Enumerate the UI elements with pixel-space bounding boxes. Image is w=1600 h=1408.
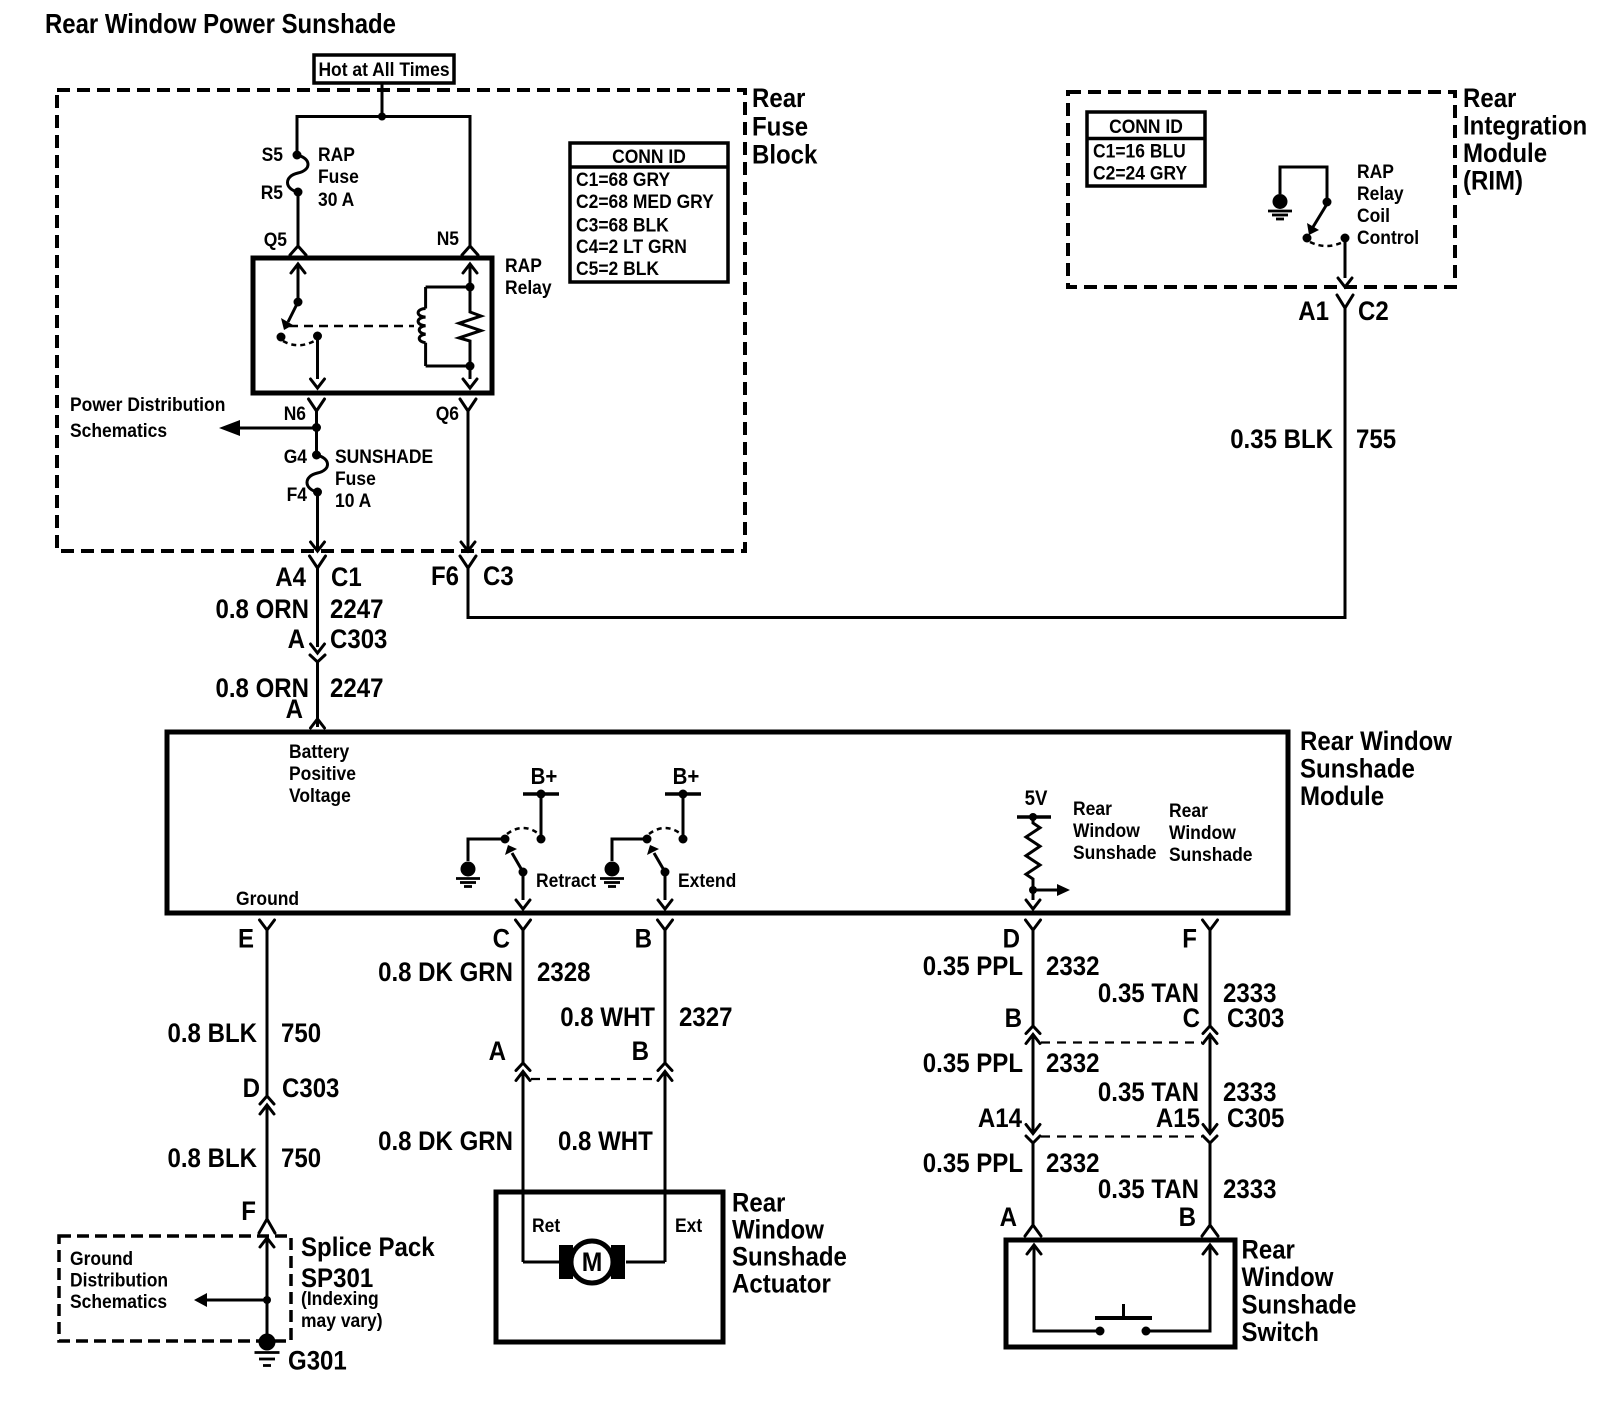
relay node coil bottom: [466, 362, 475, 371]
terminal G4: [312, 451, 321, 460]
svg-text:G4: G4: [284, 447, 308, 468]
switch pin A arrow: [1027, 1245, 1041, 1254]
connector C303 pin C fork and arrow: [1203, 1026, 1217, 1034]
relay switch pivot: [294, 298, 303, 307]
svg-text:Fuse: Fuse: [335, 469, 376, 490]
connector N5 female fork: [462, 246, 478, 255]
svg-text:Q5: Q5: [264, 230, 288, 251]
wire Q6 down to F6: [467, 411, 470, 549]
splice node SP301: [263, 1296, 271, 1304]
switch pin B arrow: [1203, 1245, 1217, 1254]
svg-text:Ground: Ground: [70, 1249, 133, 1270]
svg-text:Voltage: Voltage: [289, 786, 351, 807]
actuator motor wires: [523, 1261, 562, 1264]
svg-text:Module: Module: [1463, 138, 1547, 168]
svg-text:D: D: [243, 1073, 260, 1103]
svg-text:R5: R5: [261, 183, 284, 204]
RIM wire to A1: [1344, 238, 1347, 278]
connector C303 pin A arrow and fork: [311, 644, 325, 653]
connector C305 pin A15 arrow and fork: [1203, 1125, 1217, 1134]
svg-text:5V: 5V: [1025, 787, 1048, 810]
svg-text:C3: C3: [483, 561, 514, 591]
sense node: [1029, 886, 1037, 894]
RIM switch arm: [1313, 204, 1327, 227]
svg-text:Rear Window Power Sunshade: Rear Window Power Sunshade: [45, 8, 396, 39]
svg-text:Hot at All Times: Hot at All Times: [318, 60, 449, 81]
Rear Window Sunshade Module box: [167, 732, 1288, 913]
svg-text:Ret: Ret: [532, 1216, 561, 1237]
RIM pin A1 arrow: [1338, 278, 1352, 287]
extend output wire: [664, 874, 667, 900]
module pin D fork: [1026, 920, 1041, 930]
svg-text:F4: F4: [287, 485, 308, 506]
svg-text:2327: 2327: [679, 1002, 733, 1032]
wire from Hot at All Times to junction: [381, 83, 384, 117]
relay wire to N6: [316, 336, 319, 379]
svg-text:A4: A4: [275, 562, 306, 592]
connector Q5 female fork: [290, 246, 306, 255]
sense arrow right: [1033, 889, 1058, 892]
extend wire to ground: [612, 839, 647, 861]
svg-text:Rear: Rear: [752, 83, 806, 113]
svg-text:Rear: Rear: [1463, 83, 1517, 113]
svg-text:M: M: [582, 1247, 603, 1277]
wire F4 to A4: [316, 492, 319, 549]
svg-text:2247: 2247: [330, 673, 384, 703]
connector N6 female fork: [309, 399, 325, 411]
svg-text:0.8 DK GRN: 0.8 DK GRN: [378, 1126, 513, 1156]
junction node: [378, 113, 386, 121]
connector C305 pin A14 arrow and fork: [1026, 1125, 1040, 1134]
svg-text:2247: 2247: [330, 594, 384, 624]
svg-text:Relay: Relay: [505, 278, 552, 299]
svg-text:Schematics: Schematics: [70, 1292, 167, 1313]
wire R5 to Q5: [297, 192, 300, 246]
fuse RAP Fuse 30 A: [288, 155, 309, 192]
relay pin Q6 arrow: [463, 379, 477, 388]
relay actuation dashed link: [289, 325, 414, 328]
svg-text:S5: S5: [262, 145, 284, 166]
Rear Fuse Block dashed boundary: [57, 90, 745, 551]
connector C303 pin B fork and arrow: [1026, 1026, 1040, 1034]
wire 0.35 TAN 2333 top: [1209, 930, 1212, 1026]
svg-text:Sunshade: Sunshade: [732, 1242, 847, 1272]
svg-text:G301: G301: [288, 1346, 347, 1376]
wire 0.8 ORN 2247 lower: [316, 662, 319, 727]
svg-text:F: F: [241, 1196, 256, 1226]
svg-text:A1: A1: [1298, 296, 1329, 326]
svg-text:2333: 2333: [1223, 1174, 1277, 1204]
svg-text:N5: N5: [437, 229, 460, 250]
svg-text:Sunshade: Sunshade: [1300, 754, 1415, 784]
motor M: [571, 1241, 613, 1283]
svg-text:Relay: Relay: [1357, 184, 1404, 205]
retract pivot contact: [501, 835, 510, 844]
wire bus to fuse and relay: [297, 117, 470, 247]
svg-text:A: A: [288, 624, 305, 654]
RIM ground: [1273, 194, 1288, 209]
RIM switch contact: [1303, 234, 1312, 243]
svg-text:Battery: Battery: [289, 742, 350, 763]
switch pin A fork: [1025, 1225, 1041, 1236]
svg-text:A: A: [489, 1036, 506, 1066]
svg-text:C5=2 BLK: C5=2 BLK: [576, 259, 659, 280]
svg-text:C2: C2: [1358, 296, 1389, 326]
relay wire to Q6: [469, 366, 472, 379]
relay pin N6 arrow: [311, 379, 325, 388]
relay output contact: [313, 332, 322, 341]
svg-text:Coil: Coil: [1357, 206, 1390, 227]
svg-text:Splice Pack: Splice Pack: [301, 1232, 435, 1262]
arrow to Ground Distribution Schematics: [207, 1299, 267, 1302]
svg-text:RAP: RAP: [505, 256, 542, 277]
svg-text:750: 750: [281, 1143, 321, 1173]
relay coil: [424, 287, 427, 309]
svg-text:D: D: [1003, 924, 1020, 954]
RIM dashed throw arc: [1310, 242, 1343, 246]
wire 0.35 PPL 2332 top: [1032, 930, 1035, 1026]
ground G301: [259, 1334, 276, 1351]
svg-text:Distribution: Distribution: [70, 1271, 168, 1292]
wire 0.8 DK GRN 2328: [522, 930, 525, 1063]
wire 0.35 PPL 2332 mid: [1032, 1035, 1035, 1134]
pin F6 arrow at fuse block edge: [461, 542, 475, 551]
connector A1 / C2 fork: [1337, 295, 1353, 308]
connector pin A fork and arrow: [516, 1063, 530, 1071]
switch internal wire A: [1034, 1245, 1097, 1331]
svg-text:Power Distribution: Power Distribution: [70, 395, 225, 416]
terminal R5: [294, 188, 303, 197]
relay pin N5 arrow: [463, 264, 477, 273]
svg-text:C303: C303: [330, 624, 387, 654]
svg-text:Integration: Integration: [1463, 111, 1587, 141]
splice pack F fork: [259, 1219, 275, 1233]
svg-text:2332: 2332: [1046, 1148, 1100, 1178]
module pin F fork: [1203, 920, 1218, 930]
relay pin Q5 arrow: [291, 264, 305, 273]
extend pivot contact: [643, 835, 652, 844]
svg-text:may vary): may vary): [301, 1311, 383, 1332]
svg-text:Q6: Q6: [436, 404, 459, 425]
RIM output node: [1341, 234, 1350, 243]
CONN ID table Rear Fuse Block: [570, 143, 728, 282]
svg-text:Window: Window: [1242, 1262, 1335, 1292]
svg-text:N6: N6: [284, 404, 306, 425]
connector Q6 female fork: [460, 399, 476, 411]
svg-text:0.35 PPL: 0.35 PPL: [923, 951, 1023, 981]
connector A4 / C1 fork: [310, 556, 326, 568]
svg-text:0.35 BLK: 0.35 BLK: [1230, 424, 1333, 454]
svg-text:0.35 TAN: 0.35 TAN: [1098, 1174, 1199, 1204]
relay resistor: [459, 287, 481, 366]
svg-text:Fuse: Fuse: [318, 167, 359, 188]
svg-text:Sunshade: Sunshade: [1169, 845, 1253, 866]
svg-text:2332: 2332: [1046, 1048, 1100, 1078]
svg-text:0.35 PPL: 0.35 PPL: [923, 1048, 1023, 1078]
svg-text:Switch: Switch: [1242, 1317, 1319, 1347]
svg-text:E: E: [238, 924, 254, 954]
svg-text:A15: A15: [1156, 1103, 1200, 1133]
pin A arrow into sunshade module: [311, 719, 325, 728]
RIM RAP relay coil control driver wires: [1280, 167, 1327, 198]
terminal S5: [293, 151, 302, 160]
svg-text:750: 750: [281, 1018, 321, 1048]
wire 0.35 TAN 2333 bottom: [1209, 1143, 1212, 1225]
svg-text:B: B: [1179, 1202, 1196, 1232]
svg-text:Ground: Ground: [236, 889, 299, 910]
pushbutton contact left: [1096, 1327, 1105, 1336]
terminal F4: [313, 488, 322, 497]
svg-text:B: B: [1005, 1003, 1022, 1033]
svg-text:Ext: Ext: [675, 1216, 703, 1237]
retract pin C arrow: [516, 900, 530, 909]
connector dashed link: [531, 1078, 657, 1080]
svg-text:Window: Window: [1073, 821, 1140, 842]
svg-text:0.8 ORN: 0.8 ORN: [216, 594, 310, 624]
svg-text:B+: B+: [673, 763, 700, 789]
wire 0.35 TAN 2333 mid: [1209, 1035, 1212, 1134]
svg-text:C1=68 GRY: C1=68 GRY: [576, 170, 670, 191]
svg-text:Rear: Rear: [1169, 801, 1208, 822]
svg-text:C1: C1: [331, 562, 362, 592]
svg-text:Actuator: Actuator: [732, 1269, 831, 1299]
svg-text:F6: F6: [431, 561, 459, 591]
pin D arrow: [1026, 900, 1040, 909]
svg-text:B+: B+: [531, 763, 558, 789]
svg-text:10 A: 10 A: [335, 491, 372, 512]
RIM switch pivot: [1323, 198, 1332, 207]
wire 0.8 ORN 2247 upper: [316, 568, 319, 647]
svg-text:B: B: [635, 924, 652, 954]
svg-text:C3=68 BLK: C3=68 BLK: [576, 216, 669, 237]
switch pin B fork: [1202, 1225, 1218, 1236]
arrow to Power Distribution Schematics: [240, 427, 317, 430]
relay dashed throw arc: [283, 340, 316, 345]
module pin C fork: [516, 920, 531, 930]
retract dashed throw arc: [507, 828, 539, 834]
retract output wire: [522, 874, 525, 900]
RAP Relay box: [253, 258, 492, 393]
wire N6 down to fuse G4: [315, 411, 318, 455]
extend switch arm: [654, 853, 665, 872]
wire 0.8 BLK 750 upper: [266, 930, 269, 1096]
retract B+ contact: [537, 835, 546, 844]
svg-text:Module: Module: [1300, 781, 1384, 811]
module pin E fork: [260, 920, 275, 930]
svg-text:Rear: Rear: [1073, 799, 1112, 820]
extend B+ contact: [679, 835, 688, 844]
svg-text:0.8 BLK: 0.8 BLK: [168, 1143, 258, 1173]
svg-text:F: F: [1182, 924, 1197, 954]
pull-up resistor: [1026, 817, 1040, 900]
svg-text:Extend: Extend: [678, 871, 736, 892]
svg-text:C: C: [1183, 1003, 1200, 1033]
retract wire to ground: [468, 839, 505, 861]
svg-text:A: A: [286, 694, 303, 724]
svg-text:C4=2 LT GRN: C4=2 LT GRN: [576, 237, 687, 258]
svg-text:Retract: Retract: [536, 871, 597, 892]
svg-text:Control: Control: [1357, 228, 1419, 249]
svg-text:C303: C303: [282, 1073, 339, 1103]
svg-text:0.8 DK GRN: 0.8 DK GRN: [378, 957, 513, 987]
relay common contact: [277, 333, 286, 342]
svg-text:Sunshade: Sunshade: [1073, 843, 1157, 864]
retract switch arm: [512, 853, 523, 872]
svg-text:C305: C305: [1227, 1103, 1284, 1133]
svg-text:Sunshade: Sunshade: [1242, 1290, 1357, 1320]
fuse SUNSHADE Fuse 10 A: [307, 455, 328, 492]
svg-text:Positive: Positive: [289, 764, 356, 785]
svg-text:2332: 2332: [1046, 951, 1100, 981]
Rear Window Sunshade Switch box: [1006, 1240, 1235, 1347]
svg-text:B: B: [632, 1036, 649, 1066]
wire 0.8 WHT to actuator: [664, 1072, 667, 1263]
relay coil bottom wire: [426, 365, 470, 368]
pin A4 arrow at fuse block edge: [311, 542, 325, 551]
svg-text:A14: A14: [978, 1103, 1022, 1133]
svg-text:RAP: RAP: [318, 145, 355, 166]
svg-text:755: 755: [1356, 424, 1396, 454]
connector C303 pin D fork and arrow: [260, 1096, 274, 1104]
svg-text:Block: Block: [752, 140, 818, 170]
svg-text:0.8 BLK: 0.8 BLK: [168, 1018, 258, 1048]
svg-text:C303: C303: [1227, 1003, 1284, 1033]
extend dashed throw arc: [649, 828, 681, 834]
svg-text:A: A: [1000, 1202, 1017, 1232]
svg-text:C2=68 MED GRY: C2=68 MED GRY: [576, 192, 714, 213]
svg-text:0.8 WHT: 0.8 WHT: [558, 1126, 653, 1156]
wire 0.8 WHT 2327: [664, 930, 667, 1063]
extend moving contact: [661, 868, 670, 877]
wire 0.35 PPL 2332 bottom: [1032, 1143, 1035, 1225]
relay node coil top: [466, 283, 475, 292]
svg-text:Rear: Rear: [1242, 1235, 1296, 1265]
relay switch arm: [288, 302, 298, 322]
svg-text:30 A: 30 A: [318, 190, 355, 211]
svg-text:Rear: Rear: [732, 1188, 786, 1218]
svg-text:CONN ID: CONN ID: [1109, 117, 1183, 138]
retract ground: [461, 862, 476, 877]
svg-text:Schematics: Schematics: [70, 421, 167, 442]
retract moving contact: [519, 868, 528, 877]
wire 0.8 DK GRN to actuator: [522, 1072, 525, 1263]
C303 dashed link: [1041, 1041, 1202, 1043]
splice pack pin arrow: [260, 1238, 274, 1247]
wire 0.35 BLK 755: [468, 308, 1345, 618]
svg-text:Window: Window: [1169, 823, 1236, 844]
junction to power distribution: [312, 423, 321, 432]
Hot at All Times box: [314, 55, 454, 83]
svg-text:C2=24 GRY: C2=24 GRY: [1093, 164, 1187, 185]
svg-text:0.8 WHT: 0.8 WHT: [560, 1002, 655, 1032]
svg-text:C: C: [493, 924, 510, 954]
CONN ID table RIM: [1087, 112, 1205, 186]
switch internal wire B: [1149, 1245, 1210, 1331]
svg-text:(Indexing: (Indexing: [301, 1289, 379, 1310]
svg-text:SUNSHADE: SUNSHADE: [335, 447, 433, 468]
svg-text:C1=16 BLU: C1=16 BLU: [1093, 142, 1186, 163]
relay coil top wire: [426, 286, 470, 289]
Ground Distribution dashed boundary: [59, 1236, 291, 1341]
svg-text:Window: Window: [732, 1215, 825, 1245]
svg-text:(RIM): (RIM): [1463, 166, 1523, 196]
svg-text:Rear Window: Rear Window: [1300, 726, 1453, 756]
module pin B fork: [658, 920, 673, 930]
Rear Window Sunshade Actuator box: [496, 1192, 723, 1342]
Rear Integration Module dashed boundary: [1068, 92, 1455, 287]
connector pin B fork and arrow: [658, 1063, 672, 1071]
connector F6 / C3 fork: [460, 556, 476, 568]
svg-text:2328: 2328: [537, 957, 591, 987]
extend pin B arrow: [658, 900, 672, 909]
svg-text:RAP: RAP: [1357, 162, 1394, 183]
splice wire to G301: [266, 1238, 269, 1334]
C305 dashed link: [1041, 1135, 1202, 1137]
pushbutton actuator bar: [1095, 1316, 1152, 1320]
svg-text:CONN ID: CONN ID: [612, 147, 686, 168]
extend ground: [605, 862, 620, 877]
svg-text:Fuse: Fuse: [752, 112, 808, 142]
svg-text:0.35 PPL: 0.35 PPL: [923, 1148, 1023, 1178]
pushbutton contact right: [1142, 1327, 1151, 1336]
